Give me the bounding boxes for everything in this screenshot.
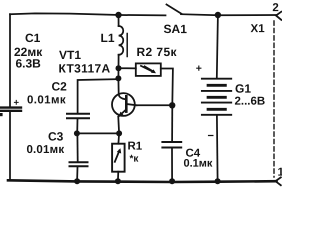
wire C3 top lead [76, 134, 78, 161]
resistor R1 adjust arrow [115, 151, 120, 162]
resistor R2 body [136, 63, 161, 76]
svg-text:C2: C2 [51, 80, 67, 94]
capacitor C2 plate top [67, 113, 89, 115]
svg-text:C1: C1 [25, 31, 41, 45]
wire top rail left segment [10, 13, 166, 15]
wire L1 top stub [118, 15, 120, 26]
wire battery G1 top lead [217, 15, 218, 78]
node top rail / battery junction [215, 12, 221, 18]
svg-text:*к: *к [129, 154, 139, 165]
capacitor C4 plate top [162, 141, 181, 143]
svg-text:1: 1 [277, 167, 282, 179]
inductor L1 core line [126, 34, 128, 57]
wire R2 right lead to collector node [161, 69, 173, 106]
wire L1 bottom stub to base node [118, 55, 120, 68]
node base/R2 junction [116, 65, 122, 71]
node C3 to bottom rail [74, 178, 80, 184]
node emitter/R1 junction [116, 130, 122, 136]
wire C2 bottom lead [76, 119, 78, 133]
battery G1 short plate 1 [208, 84, 225, 87]
battery G1 short plate 3 [208, 108, 225, 111]
svg-text:0.01мк: 0.01мк [27, 94, 66, 106]
svg-text:КТ3117А: КТ3117А [58, 62, 110, 76]
capacitor C2 plate bottom [67, 117, 89, 119]
wire R1 bottom lead [117, 172, 119, 181]
wire R2 left lead [119, 67, 136, 69]
capacitor C3 plate top [70, 161, 88, 163]
wire top rail right segment [181, 14, 277, 15]
node R1 to bottom rail [115, 178, 121, 184]
svg-text:2: 2 [272, 2, 278, 14]
wire R1 top lead [117, 133, 120, 143]
node C2/C3 junction [74, 130, 80, 136]
inductor L1 coil [119, 26, 124, 55]
battery G1 long plate 3 [202, 102, 231, 104]
svg-text:G1: G1 [235, 82, 251, 96]
battery G1 long plate 2 [202, 90, 231, 92]
svg-text:6.3В: 6.3В [15, 57, 41, 71]
connector X1 dashed boundary [273, 21, 275, 177]
battery G1 short plate 2 [208, 96, 225, 99]
svg-text:C3: C3 [48, 130, 64, 144]
wire C4 bottom lead [171, 149, 173, 182]
wire collector to node [137, 104, 173, 106]
svg-text:SA1: SA1 [164, 22, 188, 36]
wire C3 junction to emitter node [77, 132, 119, 134]
node base/C2 junction [115, 75, 121, 81]
capacitor C1 plate bottom [0, 110, 21, 112]
wire left border lower (C1 to bottom corner) [9, 112, 11, 179]
wire base column between junctions [117, 68, 119, 78]
battery G1 long plate 4 [202, 114, 231, 116]
resistor R1 body [112, 144, 125, 172]
svg-text:+: + [13, 98, 19, 109]
svg-text:0.01мк: 0.01мк [26, 144, 64, 156]
node battery to bottom rail [215, 178, 221, 184]
wire bottom rail [8, 180, 277, 182]
battery G1 long plate 1 [202, 78, 231, 80]
scan speck left edge [0, 113, 3, 116]
svg-text:2...6В: 2...6В [235, 96, 266, 108]
transistor VT1 emitter line [118, 110, 126, 117]
transistor VT1 collector line [127, 104, 137, 105]
svg-text:0.1мк: 0.1мк [183, 158, 212, 170]
node collector/R2/C4 junction [169, 102, 175, 108]
wire base lead into transistor [118, 78, 125, 99]
svg-text:L1: L1 [101, 31, 115, 45]
switch SA1 blade [167, 5, 182, 14]
transistor VT1 base bar [125, 96, 128, 111]
node C4 to bottom rail [169, 178, 175, 184]
svg-text:R2 75к: R2 75к [137, 45, 178, 59]
connector X1 pin 1 socket [276, 177, 281, 185]
wire C3 bottom lead [76, 167, 78, 181]
transistor VT1 circle [112, 93, 135, 116]
wire left border upper (to C1) [9, 14, 11, 106]
wire battery G1 bottom lead [216, 116, 219, 181]
resistor R2 adjust arrow [141, 66, 152, 71]
connector X1 pin 2 socket [276, 12, 281, 20]
transistor VT1 emitter arrowhead [118, 112, 124, 117]
capacitor C3 plate bottom [70, 165, 88, 167]
wire C4 top lead [171, 105, 173, 141]
svg-text:+: + [196, 63, 202, 75]
wire C2 top lead to base node [78, 79, 119, 113]
wire emitter down to junction [117, 117, 120, 133]
capacitor C4 plate bottom [162, 147, 181, 149]
svg-text:R1: R1 [127, 141, 142, 153]
svg-text:VT1: VT1 [59, 48, 81, 62]
node top rail / L1 junction [115, 12, 121, 18]
capacitor C1 plate top [0, 106, 21, 108]
svg-text:X1: X1 [251, 23, 266, 35]
svg-text:−: − [207, 130, 213, 142]
